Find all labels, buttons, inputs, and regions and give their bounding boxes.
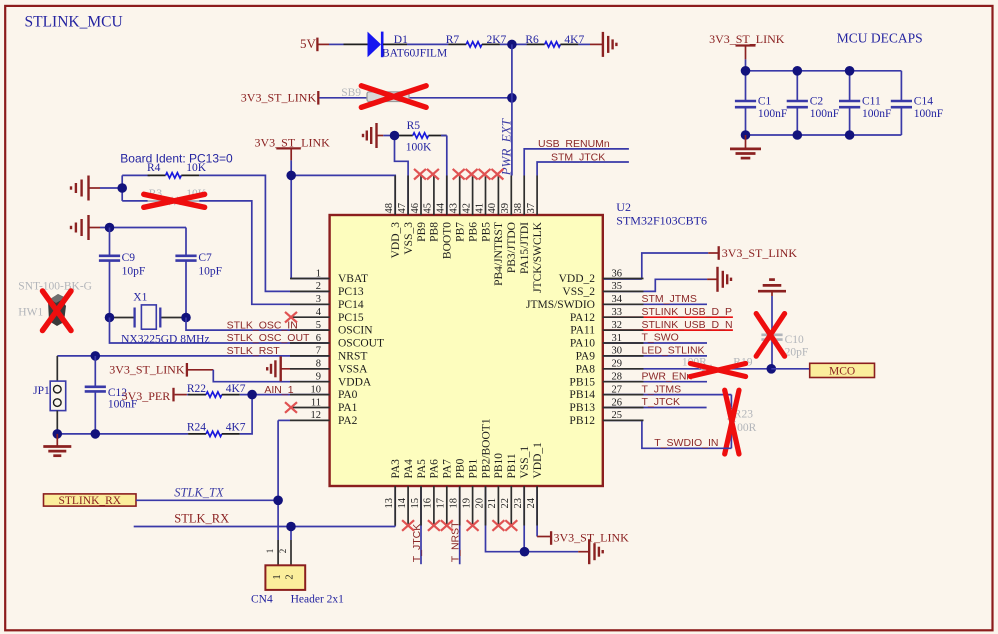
svg-text:4K7: 4K7: [226, 383, 246, 395]
svg-text:33: 33: [612, 307, 623, 318]
svg-text:100nF: 100nF: [810, 108, 839, 120]
svg-text:Board Ident: PC13=0: Board Ident: PC13=0: [120, 151, 233, 165]
svg-text:VSS_3: VSS_3: [403, 222, 415, 255]
svg-text:JTMS/SWDIO: JTMS/SWDIO: [526, 299, 595, 311]
svg-text:PA6: PA6: [429, 459, 441, 479]
svg-text:39: 39: [500, 203, 511, 213]
svg-text:20: 20: [474, 498, 485, 509]
svg-text:12: 12: [311, 410, 322, 421]
svg-text:PB5: PB5: [480, 222, 492, 242]
svg-text:14: 14: [397, 497, 408, 508]
svg-text:6: 6: [316, 333, 321, 344]
svg-text:PC13: PC13: [338, 286, 364, 298]
svg-text:23: 23: [513, 498, 524, 509]
svg-text:MCU DECAPS: MCU DECAPS: [837, 30, 923, 45]
svg-text:T_NRST: T_NRST: [450, 521, 462, 562]
svg-text:17: 17: [436, 498, 447, 509]
svg-text:5V: 5V: [300, 36, 317, 51]
svg-text:3V3_ST_LINK: 3V3_ST_LINK: [709, 32, 785, 46]
svg-text:PA10: PA10: [570, 338, 595, 350]
svg-text:10pF: 10pF: [122, 266, 146, 278]
svg-text:36: 36: [612, 268, 623, 279]
svg-text:BOOT0: BOOT0: [442, 222, 454, 259]
svg-text:T_JTCK: T_JTCK: [642, 396, 681, 408]
svg-text:JP1: JP1: [33, 385, 50, 397]
svg-text:20pF: 20pF: [785, 347, 809, 359]
svg-text:1: 1: [272, 574, 283, 579]
svg-text:PB0: PB0: [455, 458, 467, 478]
svg-text:VSS_1: VSS_1: [519, 446, 531, 479]
svg-text:34: 34: [612, 294, 623, 305]
svg-text:X1: X1: [133, 292, 147, 304]
svg-text:3V3_PER: 3V3_PER: [122, 389, 171, 403]
svg-text:19: 19: [461, 498, 472, 509]
svg-text:CN4: CN4: [251, 594, 273, 606]
svg-text:3: 3: [316, 294, 321, 305]
svg-text:9: 9: [316, 372, 321, 383]
svg-text:5: 5: [316, 320, 321, 331]
svg-text:1: 1: [265, 549, 275, 554]
svg-text:NRST: NRST: [338, 351, 367, 363]
svg-text:26: 26: [612, 397, 623, 408]
svg-text:PA12: PA12: [570, 312, 595, 324]
svg-text:STLK_RST: STLK_RST: [227, 345, 281, 357]
svg-text:PB12: PB12: [569, 415, 595, 427]
svg-text:JTCK/SWCLK: JTCK/SWCLK: [532, 221, 544, 293]
svg-text:48: 48: [384, 203, 395, 214]
svg-text:40: 40: [487, 203, 498, 214]
svg-text:D1: D1: [394, 34, 408, 46]
svg-text:STLINK_USB_D_N: STLINK_USB_D_N: [642, 319, 733, 331]
svg-text:10K: 10K: [186, 162, 207, 174]
svg-text:1: 1: [316, 268, 321, 279]
svg-text:PA1: PA1: [338, 402, 358, 414]
svg-text:STLINK_MCU: STLINK_MCU: [25, 14, 123, 31]
svg-text:24: 24: [526, 497, 537, 508]
svg-text:25: 25: [612, 410, 623, 421]
svg-text:PA5: PA5: [416, 459, 428, 479]
svg-text:PA4: PA4: [403, 459, 415, 479]
svg-text:13: 13: [384, 498, 395, 509]
svg-text:PB13: PB13: [569, 402, 595, 414]
svg-text:PA9: PA9: [576, 351, 596, 363]
svg-text:2: 2: [278, 549, 288, 554]
svg-text:VDDA: VDDA: [338, 376, 372, 388]
svg-text:PB8: PB8: [429, 222, 441, 242]
svg-text:3V3_ST_LINK: 3V3_ST_LINK: [109, 363, 185, 377]
svg-text:46: 46: [410, 203, 421, 214]
svg-text:7: 7: [316, 346, 321, 357]
svg-text:BAT60JFILM: BAT60JFILM: [382, 48, 447, 60]
svg-text:15: 15: [410, 498, 421, 509]
svg-text:32: 32: [612, 320, 623, 331]
svg-text:100nF: 100nF: [914, 108, 943, 120]
svg-text:43: 43: [449, 203, 460, 214]
svg-text:37: 37: [526, 203, 537, 214]
svg-text:C10: C10: [785, 334, 804, 346]
svg-text:11: 11: [311, 397, 321, 408]
svg-text:PB1: PB1: [467, 458, 479, 478]
svg-text:PA0: PA0: [338, 389, 358, 401]
svg-text:SNT-100-BK-G: SNT-100-BK-G: [18, 281, 92, 293]
svg-text:PA11: PA11: [570, 325, 595, 337]
svg-text:STLINK_RX: STLINK_RX: [58, 495, 121, 507]
svg-text:29: 29: [612, 359, 623, 370]
svg-text:3V3_ST_LINK: 3V3_ST_LINK: [241, 91, 317, 105]
svg-text:45: 45: [423, 203, 434, 214]
svg-text:PC15: PC15: [338, 312, 364, 324]
svg-text:44: 44: [436, 202, 447, 213]
svg-text:PB10: PB10: [493, 453, 505, 479]
svg-text:R4: R4: [147, 162, 161, 174]
svg-text:PB14: PB14: [569, 389, 595, 401]
svg-text:4K7: 4K7: [226, 422, 246, 434]
svg-text:PWR_EXT: PWR_EXT: [499, 118, 514, 176]
svg-text:27: 27: [612, 384, 623, 395]
svg-text:35: 35: [612, 281, 623, 292]
svg-text:PA2: PA2: [338, 415, 358, 427]
svg-text:U2: U2: [616, 200, 631, 214]
svg-text:38: 38: [513, 203, 524, 214]
svg-text:STLK_RX: STLK_RX: [174, 512, 229, 526]
svg-text:C7: C7: [198, 252, 212, 264]
svg-text:21: 21: [487, 498, 498, 509]
svg-text:10pF: 10pF: [198, 266, 222, 278]
svg-text:18: 18: [449, 498, 460, 509]
svg-text:VSSA: VSSA: [338, 363, 368, 375]
svg-text:28: 28: [612, 372, 623, 383]
svg-text:PB4/JNTRST: PB4/JNTRST: [493, 222, 505, 286]
svg-text:T_JTMS: T_JTMS: [642, 383, 682, 395]
svg-text:100nF: 100nF: [862, 108, 891, 120]
svg-text:3V3_ST_LINK: 3V3_ST_LINK: [722, 246, 798, 260]
svg-text:PB7: PB7: [455, 222, 467, 242]
svg-text:PB3/JTDO: PB3/JTDO: [506, 222, 518, 273]
svg-text:PB2/BOOT1: PB2/BOOT1: [480, 418, 492, 478]
svg-text:STLINK_USB_D_P: STLINK_USB_D_P: [642, 306, 732, 318]
svg-text:16: 16: [423, 498, 434, 509]
svg-text:PA3: PA3: [390, 459, 402, 479]
svg-text:41: 41: [474, 203, 485, 214]
svg-text:LED_STLINK: LED_STLINK: [642, 345, 705, 357]
svg-text:C9: C9: [122, 252, 136, 264]
svg-text:VDD_3: VDD_3: [390, 222, 402, 259]
svg-text:STM_JTMS: STM_JTMS: [642, 293, 697, 305]
svg-text:C14: C14: [914, 96, 933, 108]
svg-text:PA8: PA8: [576, 363, 596, 375]
svg-text:MCO: MCO: [829, 365, 855, 377]
svg-text:STLK_TX: STLK_TX: [174, 485, 225, 499]
svg-text:OSCIN: OSCIN: [338, 325, 373, 337]
svg-text:AIN_1: AIN_1: [264, 384, 293, 396]
svg-text:PA7: PA7: [442, 459, 454, 479]
svg-text:Header 2x1: Header 2x1: [291, 594, 345, 606]
svg-text:C11: C11: [862, 96, 881, 108]
svg-text:47: 47: [397, 203, 408, 214]
svg-text:T_SWDIO_IN: T_SWDIO_IN: [654, 437, 718, 449]
svg-text:R22: R22: [187, 383, 206, 395]
svg-text:2: 2: [285, 574, 296, 579]
svg-text:STM32F103CBT6: STM32F103CBT6: [616, 214, 707, 228]
svg-text:31: 31: [612, 333, 623, 344]
svg-text:OSCOUT: OSCOUT: [338, 338, 384, 350]
svg-text:2: 2: [316, 281, 321, 292]
svg-text:PC14: PC14: [338, 299, 364, 311]
svg-text:T_SWO: T_SWO: [642, 332, 679, 344]
svg-text:100nF: 100nF: [758, 108, 787, 120]
svg-text:SB9: SB9: [341, 87, 361, 99]
svg-text:100K: 100K: [406, 142, 432, 154]
svg-text:PB15: PB15: [569, 376, 595, 388]
svg-text:C2: C2: [810, 96, 824, 108]
svg-text:3V3_ST_LINK: 3V3_ST_LINK: [554, 531, 630, 545]
svg-text:PWR_ENn: PWR_ENn: [642, 370, 693, 382]
svg-text:10: 10: [311, 384, 322, 395]
svg-text:R5: R5: [407, 120, 421, 132]
svg-text:R24: R24: [187, 422, 206, 434]
svg-text:42: 42: [461, 203, 472, 214]
svg-text:PB11: PB11: [506, 453, 518, 478]
svg-text:4: 4: [316, 307, 322, 318]
svg-text:VDD_1: VDD_1: [532, 442, 544, 479]
svg-text:22: 22: [500, 498, 511, 508]
svg-text:VDD_2: VDD_2: [559, 273, 596, 285]
svg-text:30: 30: [612, 346, 623, 357]
svg-text:PB6: PB6: [467, 222, 479, 242]
svg-text:8: 8: [316, 359, 321, 370]
svg-text:VSS_2: VSS_2: [562, 286, 595, 298]
svg-text:PA15/JTDI: PA15/JTDI: [519, 222, 531, 274]
svg-text:PB9: PB9: [416, 222, 428, 242]
svg-text:C1: C1: [758, 96, 772, 108]
svg-text:VBAT: VBAT: [338, 273, 368, 285]
svg-text:HW1: HW1: [18, 307, 43, 319]
